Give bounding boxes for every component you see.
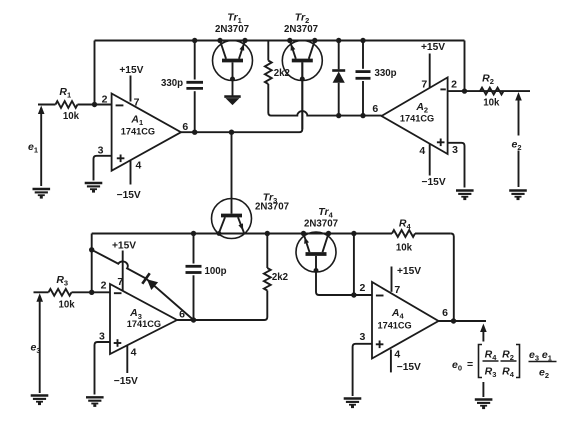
ground A2 pin3 (456, 191, 474, 201)
op-amp A4 (372, 282, 439, 359)
pin 3 ground wire A4 (353, 344, 372, 396)
resistor 2k2 #1 (267, 41, 269, 61)
svg-text:3: 3 (359, 331, 365, 343)
svg-text:1741CG: 1741CG (400, 113, 434, 123)
pin 7 +15V A2 (429, 54, 431, 89)
ground A1 pin3 (85, 183, 103, 193)
pin 7 +15V A1 (130, 76, 132, 102)
pin 3 ground wire A3 (95, 342, 111, 395)
transistor Tr4 2N3707 (296, 231, 372, 295)
svg-text:7: 7 (394, 284, 400, 296)
pin 7 +15V A4 (391, 267, 393, 292)
svg-text:1741CG: 1741CG (121, 126, 155, 136)
wire A1 output to Tr3 (231, 132, 233, 213)
svg-text:3: 3 (99, 331, 105, 343)
transistor Tr3 2N3707 (212, 199, 252, 239)
diode feedback diagonal A3 (92, 250, 194, 320)
pin 4 -15V A3 (126, 345, 128, 373)
wire A2 inverting input drop (464, 41, 466, 92)
ground e2 (509, 191, 527, 201)
diode D1 (338, 41, 340, 70)
svg-text:330p: 330p (374, 68, 396, 79)
svg-text:2N3707: 2N3707 (304, 219, 338, 230)
svg-text:10k: 10k (396, 243, 413, 254)
svg-text:6: 6 (182, 121, 188, 133)
terminal e0 arrow (482, 326, 484, 342)
resistor R2 (480, 88, 504, 95)
wire rail to A4 pin 2 (353, 234, 355, 296)
svg-text:6: 6 (442, 307, 448, 319)
svg-text:−15V: −15V (397, 362, 421, 373)
wire A1 output rail (181, 62, 302, 132)
wire A3 output rail (177, 291, 267, 321)
resistor R3 (49, 289, 72, 296)
svg-text:=: = (467, 359, 473, 371)
ground e1 (33, 189, 51, 199)
svg-text:−15V: −15V (114, 376, 138, 387)
svg-text:+15V: +15V (119, 65, 143, 76)
svg-text:2: 2 (102, 93, 108, 105)
ground Tr1 (224, 97, 240, 106)
pin 4 -15V A1 (130, 160, 132, 184)
terminal e2 arrow (518, 95, 520, 188)
svg-text:7: 7 (134, 97, 140, 109)
capacitor 330p #2 (362, 41, 364, 69)
svg-text:3: 3 (98, 144, 104, 156)
svg-text:4: 4 (131, 346, 137, 358)
pin 4 -15V A2 (429, 144, 431, 176)
svg-text:1741CG: 1741CG (127, 319, 161, 329)
svg-text:100p: 100p (204, 266, 226, 277)
svg-text:−15V: −15V (422, 177, 446, 188)
wire A1 feedback vertical (94, 41, 96, 105)
terminal e1 arrow (40, 108, 42, 186)
svg-text:+15V: +15V (397, 266, 421, 277)
transistor Tr1 2N3707 (213, 38, 253, 96)
svg-text:2: 2 (451, 79, 457, 91)
ground e3 (31, 396, 49, 406)
wire e1 input (38, 104, 56, 106)
svg-text:10k: 10k (63, 111, 80, 122)
svg-text:2k2: 2k2 (272, 272, 288, 283)
svg-text:10k: 10k (483, 97, 500, 108)
svg-text:4: 4 (135, 160, 141, 172)
svg-text:4: 4 (394, 348, 400, 360)
node Tr3 drop (229, 130, 234, 135)
svg-text:2: 2 (101, 280, 107, 292)
formula e0 (452, 345, 557, 381)
resistor 2k2 #2 (264, 268, 271, 291)
wire R3 to pin 2 (72, 291, 111, 293)
node diagonal top (89, 247, 94, 252)
node pin2 A3 junction (89, 290, 94, 295)
pin 3 ground wire A2 (448, 143, 465, 188)
svg-text:−15V: −15V (117, 190, 141, 201)
svg-text:1741CG: 1741CG (377, 320, 411, 330)
svg-text:2N3707: 2N3707 (284, 24, 318, 35)
pin 7 +15V A3 (122, 251, 124, 291)
svg-text:+15V: +15V (112, 241, 136, 252)
wire A3 feedback vertical (91, 234, 93, 293)
op-amp A1 (112, 94, 181, 171)
svg-text:2N3707: 2N3707 (215, 24, 249, 35)
svg-text:+15V: +15V (421, 42, 445, 53)
resistor R4 (392, 230, 415, 237)
svg-text:330p: 330p (161, 78, 183, 89)
svg-text:2: 2 (359, 282, 365, 294)
wire A4 output (439, 320, 487, 322)
svg-text:6: 6 (179, 308, 185, 320)
op-amp A2 (382, 77, 448, 154)
wire e3 input (34, 291, 49, 293)
pin 2 wire A2 to R2 (448, 90, 530, 92)
node cap1 top (192, 38, 197, 43)
node pin2 A1 junction (92, 102, 97, 107)
node cap1 bottom (192, 130, 197, 135)
ground A4 pin3 (344, 399, 362, 409)
terminal e3 arrow (39, 296, 41, 393)
transistor Tr2 2N3707 (282, 38, 322, 129)
wire bottom feedback rail (92, 233, 392, 235)
svg-text:4: 4 (419, 145, 425, 157)
ground e0 (475, 400, 493, 410)
svg-text:6: 6 (372, 103, 378, 115)
svg-text:3: 3 (452, 144, 458, 156)
capacitor 100p (193, 234, 195, 264)
svg-text:2N3707: 2N3707 (255, 202, 289, 213)
capacitor 330p #1 (194, 41, 196, 80)
op-amp A3 (110, 284, 177, 354)
svg-text:7: 7 (421, 79, 427, 91)
wire R1 to pin 2 (78, 104, 112, 106)
resistor R1 (56, 101, 78, 108)
pin 4 -15V A4 (390, 350, 392, 373)
wire R4 rail corner down to A4 output (451, 234, 454, 322)
wire top feedback rail (95, 40, 465, 42)
svg-text:10k: 10k (59, 300, 76, 311)
svg-text:7: 7 (117, 276, 123, 288)
pin 3 ground wire A1 (94, 156, 112, 181)
ground A3 pin3 (86, 397, 104, 407)
